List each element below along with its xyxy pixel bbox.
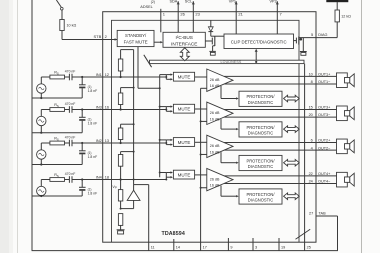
- wire pin 17 reference bus: [200, 88, 202, 250]
- wire C470n to pin 18 row 4: [72, 179, 103, 181]
- ground bus row 2: [32, 132, 82, 134]
- block I2C-BUS INTERFACE: [163, 32, 205, 47]
- resistor bias R3: [118, 128, 122, 140]
- wire tap to bias resistor row 3: [120, 124, 122, 128]
- wire Rs to C470n row 3: [65, 142, 70, 144]
- wire MUTE 4 to amp: [195, 174, 207, 176]
- svg-text:27: 27: [309, 212, 313, 216]
- svg-text:5: 5: [311, 32, 314, 37]
- svg-text:DIAGNOSTIC: DIAGNOSTIC: [248, 131, 274, 136]
- wire ref branch to amp 2: [201, 120, 207, 122]
- svg-text:19: 19: [281, 246, 285, 250]
- signal source V3: [37, 150, 46, 159]
- svg-text:MUTE: MUTE: [178, 140, 191, 145]
- wire source bottom row 1: [40, 93, 42, 98]
- svg-text:I²C-BUS: I²C-BUS: [175, 35, 192, 40]
- wire shunt cap to ground row 3: [81, 154, 83, 164]
- capacitor 1.8 nF row 1: [79, 84, 86, 86]
- capacitor 470 nF row 2: [68, 106, 70, 113]
- resistor bias R4: [118, 155, 122, 167]
- svg-text:DIAGNOSTIC: DIAGNOSTIC: [248, 164, 274, 169]
- node ref bus junction 2: [200, 120, 202, 122]
- wire ref branch to amp 1: [201, 87, 207, 89]
- ground Vref bar: [117, 229, 125, 231]
- node mute control junction: [159, 87, 161, 89]
- svg-text:1: 1: [163, 12, 166, 17]
- ground bus row 1: [32, 97, 82, 99]
- op-amp power amplifier A2: [207, 102, 233, 124]
- svg-text:26: 26: [180, 12, 185, 17]
- svg-text:2: 2: [105, 34, 108, 39]
- wire bias resistor to input row 2: [120, 105, 122, 110]
- wire mute-control branch 2: [160, 106, 167, 108]
- wire speaker - lead 1: [316, 83, 337, 85]
- wire divider to buffer input: [121, 208, 134, 210]
- control bus bar: [150, 60, 305, 63]
- fat double arrow I2C to bus: [180, 48, 189, 61]
- capacitor 1.8 nF row 4: [79, 186, 86, 188]
- switch S1 lever: [56, 0, 61, 7]
- resistor Vref lower: [118, 214, 122, 226]
- wire Q1 source down: [302, 38, 304, 52]
- resistor Rs row 4: [50, 178, 65, 182]
- svg-text:1.8 nF: 1.8 nF: [88, 89, 98, 93]
- node signal junction 4: [165, 179, 167, 181]
- svg-text:VP1: VP1: [229, 0, 236, 4]
- svg-text:PROTECTION/: PROTECTION/: [247, 192, 276, 197]
- svg-text:STB: STB: [94, 34, 102, 39]
- block MUTE 4: [173, 170, 194, 179]
- svg-text:26 dB: 26 dB: [210, 78, 220, 82]
- node input junction row 1: [81, 76, 83, 78]
- node input junction row 4: [81, 178, 83, 180]
- wire MUTE 3 to amp: [195, 141, 207, 143]
- block MUTE 3: [173, 138, 194, 147]
- svg-text:DIAGNOSTIC: DIAGNOSTIC: [248, 100, 274, 105]
- op-amp power amplifier A4: [207, 168, 233, 190]
- wire input split vertical 4: [165, 173, 167, 180]
- node bias-input junction row 2: [120, 108, 122, 110]
- svg-text:470 nF: 470 nF: [65, 135, 76, 139]
- wire speaker - lead 4: [316, 182, 337, 184]
- capacitor 470 nF row 4: [68, 176, 70, 183]
- svg-text:26 dB: 26 dB: [210, 111, 220, 115]
- resistor Vref upper: [118, 190, 122, 201]
- wire source to Rs row 1: [41, 76, 50, 78]
- block MUTE 1: [173, 72, 194, 81]
- wire OUT- channel 2: [224, 116, 316, 118]
- svg-text:IN3: IN3: [96, 106, 102, 110]
- svg-text:26 dB: 26 dB: [210, 144, 220, 148]
- fat double arrow 1: [284, 95, 300, 102]
- wire diode D1 to rail: [210, 20, 212, 27]
- wire input split vertical 2: [165, 107, 167, 112]
- svg-text:DIAG: DIAG: [318, 33, 327, 37]
- wire input split vertical 1: [165, 75, 167, 80]
- svg-text:20: 20: [309, 113, 313, 117]
- switch fast-mute lever: [144, 55, 152, 67]
- wire ref branch to amp 3: [201, 153, 207, 155]
- svg-text:1.8 nF: 1.8 nF: [88, 191, 98, 195]
- arrowhead VP2 up: [276, 1, 279, 4]
- arrowhead SDA up: [177, 1, 180, 4]
- svg-text:PROTECTION/: PROTECTION/: [247, 94, 276, 99]
- node source ground junction row 2: [40, 132, 42, 134]
- wire shunt cap top row 4: [81, 180, 83, 188]
- wire shunt cap top row 2: [81, 110, 83, 118]
- svg-text:16 dB: 16 dB: [210, 150, 220, 154]
- wire 12k to DIAG: [336, 22, 338, 38]
- node bias bus IN4 crossing: [133, 179, 135, 181]
- transistor Q1 gate bar: [295, 38, 297, 44]
- loudspeaker LS4: [337, 172, 348, 187]
- node ref bus junction 3: [200, 153, 202, 155]
- node signal junction 2: [165, 109, 167, 111]
- capacitor 1.8 nF row 3: [79, 150, 86, 152]
- ground bar of Q2: [209, 50, 215, 52]
- wire input split vertical 3: [165, 140, 167, 145]
- svg-text:25: 25: [307, 246, 311, 250]
- node bias-input junction row 1: [120, 76, 122, 78]
- wire mute-control branch 3: [160, 139, 167, 141]
- fat double arrow 2: [284, 126, 300, 133]
- svg-text:12 kΩ: 12 kΩ: [341, 15, 351, 19]
- wire C470n to pin 12 row 1: [72, 76, 103, 78]
- svg-text:22: 22: [309, 172, 313, 176]
- node signal junction 3: [165, 142, 167, 144]
- block STANDBY/FAST MUTE: [117, 30, 154, 46]
- svg-text:9: 9: [230, 246, 232, 250]
- wire source V3 top: [40, 143, 42, 150]
- wire speaker + lead 2: [316, 109, 337, 111]
- wire speaker + lead 1: [316, 75, 337, 77]
- wire divider mid: [120, 201, 122, 209]
- arrowhead SCL up: [192, 1, 195, 4]
- wire bias tap row 4: [121, 151, 134, 153]
- node source ground junction row 1: [40, 97, 42, 99]
- wire buffer input up: [133, 200, 135, 208]
- svg-text:1.8 nF: 1.8 nF: [88, 155, 98, 159]
- loudspeaker LS1: [337, 73, 348, 88]
- node bus-clip junction: [255, 61, 257, 63]
- svg-text:8: 8: [311, 80, 313, 84]
- wire Rs to C470n row 1: [65, 76, 70, 78]
- wire VP2 pin 7: [276, 1, 278, 34]
- arrow STANDBY to I2C: [154, 41, 161, 43]
- signal source V1: [37, 84, 46, 93]
- bus width slash: [296, 229, 311, 239]
- svg-text:1.8 nF: 1.8 nF: [88, 121, 98, 125]
- resistor 10 kOhm: [60, 20, 64, 31]
- svg-text:26 dB: 26 dB: [210, 177, 220, 181]
- wire source to Rs row 3: [41, 142, 50, 144]
- wire bottom pin 14: [173, 239, 175, 251]
- wire IN2 inside IC: [103, 142, 167, 144]
- node DIAG drain junction: [300, 38, 303, 41]
- ground bar of Q1: [300, 51, 307, 53]
- svg-text:SCL: SCL: [185, 0, 192, 4]
- wire bottom pin 9: [227, 238, 229, 251]
- wire Q2 drain to CLIP box: [215, 35, 224, 37]
- svg-text:SDA: SDA: [170, 0, 178, 4]
- svg-text:TAB: TAB: [319, 212, 327, 216]
- wire Q2 source down: [213, 45, 215, 47]
- wire DIAG external: [316, 37, 337, 39]
- op-amp power amplifier A3: [207, 135, 233, 157]
- svg-text:7: 7: [280, 12, 283, 17]
- wire buffer output up: [133, 185, 135, 191]
- wire IN1 inside IC: [103, 76, 167, 78]
- wire tap to bias resistor row 4: [120, 152, 122, 155]
- wire STB horizontal to pin 2: [62, 39, 117, 41]
- svg-text:3: 3: [255, 246, 257, 250]
- svg-text:STANDBY/: STANDBY/: [125, 33, 147, 38]
- wire source to Rs row 4: [41, 179, 50, 181]
- wire bias tap row 1: [121, 49, 134, 51]
- ground bus row 4: [32, 195, 82, 197]
- wire source V1 top: [40, 77, 42, 84]
- wire speaker + lead 3: [316, 142, 337, 144]
- wire MUTE 1 to amp: [195, 76, 207, 78]
- arrow into MUTE 3 lower: [166, 144, 170, 146]
- svg-text:FAST MUTE: FAST MUTE: [124, 40, 148, 45]
- svg-text:VP2: VP2: [270, 0, 277, 4]
- svg-text:12: 12: [105, 73, 109, 77]
- wire OUT- channel 1: [224, 83, 316, 85]
- svg-text:16: 16: [105, 106, 109, 110]
- wire amp 2 to protection: [220, 119, 222, 129]
- arrow into MUTE 2 upper: [166, 106, 170, 108]
- wire speaker + lead 4: [316, 175, 337, 177]
- fat double arrow 3: [284, 159, 300, 166]
- wire tap to bias resistor row 1: [120, 50, 122, 59]
- svg-text:13: 13: [105, 139, 109, 143]
- wire R10k to STB corner: [61, 31, 63, 40]
- wire OUT+ channel 3: [224, 142, 316, 144]
- node mute-control junction 4: [159, 172, 161, 174]
- wire source to Rs row 2: [41, 109, 50, 111]
- op-amp Vref buffer: [127, 190, 140, 200]
- node bias bus tap 2: [133, 87, 135, 89]
- svg-text:15: 15: [309, 106, 313, 110]
- wire bias resistor to input row 4: [120, 166, 122, 179]
- wire OUT- channel 3: [224, 149, 316, 151]
- arrow into MUTE 4 lower: [166, 176, 170, 178]
- node mute-control junction 2: [159, 106, 161, 108]
- loudspeaker LS3: [337, 139, 348, 154]
- wire pin 11 vertical: [148, 185, 150, 251]
- wire amp 4 to protection: [220, 185, 222, 196]
- node bias bus tap 4: [133, 151, 135, 153]
- wire Rs to C470n row 4: [65, 179, 70, 181]
- wire STANDBY bottom down: [137, 47, 139, 89]
- resistor Rs row 2: [50, 108, 65, 112]
- wire amp 1 to protection: [220, 86, 222, 99]
- block CLIP DETECT/DIAGNOSTIC: [224, 34, 294, 49]
- wire standby to mute-control bus: [138, 87, 160, 89]
- IC U1 TDA8594 outline: [103, 12, 316, 243]
- wire mute-control branch 1: [160, 74, 167, 76]
- svg-text:470 nF: 470 nF: [65, 69, 76, 73]
- arrow into MUTE 1 upper: [166, 74, 170, 76]
- arrow into MUTE 2 lower: [166, 110, 170, 112]
- node bias bus tap 3: [133, 123, 135, 125]
- svg-text:INTERFACE: INTERFACE: [171, 41, 197, 46]
- svg-text:OUT4+: OUT4+: [318, 172, 331, 176]
- resistor Rs row 1: [50, 75, 65, 79]
- svg-text:CLIP DETECT/DIAGNOSTIC: CLIP DETECT/DIAGNOSTIC: [231, 40, 287, 45]
- wire bus up into CLIP box with arrow: [255, 51, 257, 60]
- wire TAB pin 27: [316, 215, 338, 217]
- svg-text:ADSEL: ADSEL: [140, 5, 152, 9]
- svg-text:MUTE: MUTE: [178, 107, 191, 112]
- wire OUT- channel 4: [224, 182, 316, 184]
- svg-text:IN4: IN4: [96, 176, 102, 180]
- wire source V2 top: [40, 110, 42, 117]
- node divider mid junction: [120, 208, 122, 210]
- wire VP1 pin 21: [235, 1, 237, 34]
- signal source V2: [37, 116, 46, 125]
- node ref bus junction 4: [200, 187, 202, 189]
- node source ground junction row 3: [40, 163, 42, 165]
- svg-text:TDA8594: TDA8594: [162, 231, 185, 237]
- ground Vref box: [118, 231, 124, 234]
- wire speaker - lead 3: [316, 149, 337, 151]
- signal source V4: [37, 186, 46, 195]
- svg-text:DIAGNOSTIC: DIAGNOSTIC: [248, 198, 274, 203]
- node mute-control junction 3: [159, 139, 161, 141]
- wire switch to R 10k: [61, 10, 63, 20]
- ground box of Q2: [210, 52, 215, 55]
- node signal junction 1: [165, 76, 167, 78]
- svg-text:14: 14: [176, 246, 180, 250]
- resistor 12 kOhm: [335, 10, 339, 22]
- svg-text:17: 17: [203, 246, 207, 250]
- node input junction row 2: [81, 108, 83, 110]
- diode D1: [208, 27, 213, 32]
- block PROTECTION/DIAGNOSTIC 2: [239, 122, 282, 137]
- fat double arrow 4: [284, 193, 300, 200]
- svg-text:18: 18: [105, 176, 109, 180]
- op-amp power amplifier A1: [207, 69, 233, 91]
- ground box of Q1: [301, 53, 306, 56]
- wire lower resistor to ground: [120, 225, 122, 229]
- svg-text:IN1: IN1: [96, 73, 102, 77]
- block PROTECTION/DIAGNOSTIC 1: [239, 91, 282, 106]
- wire diagnostic bus pin 25: [304, 64, 306, 251]
- svg-text:21: 21: [238, 12, 243, 17]
- resistor Rs row 3: [50, 141, 65, 145]
- wire mute-control branch 4: [160, 172, 167, 174]
- svg-text:23: 23: [195, 12, 200, 17]
- wire shunt cap to ground row 2: [81, 121, 83, 133]
- wire MUTE 2 to amp: [195, 108, 207, 110]
- wire source bottom row 4: [40, 195, 42, 197]
- wire bottom pin 19: [278, 238, 280, 251]
- wire C470n to pin 13 row 3: [72, 142, 103, 144]
- svg-text:470 nF: 470 nF: [65, 102, 76, 106]
- capacitor 470 nF row 1: [68, 74, 70, 81]
- resistor bias R2: [118, 93, 122, 105]
- node input junction row 3: [81, 142, 83, 144]
- svg-text:470 nF: 470 nF: [65, 172, 76, 176]
- wire bias resistor to input row 3: [120, 140, 122, 144]
- block PROTECTION/DIAGNOSTIC 4: [239, 189, 282, 204]
- wire amp 3 to protection: [220, 152, 222, 163]
- wire CLIP box to Q1 gate: [294, 40, 297, 42]
- wire bias resistor to input row 1: [120, 71, 122, 77]
- wire bias tap row 2: [121, 87, 134, 89]
- wire D1 to Q2 drain: [210, 32, 212, 37]
- svg-text:MUTE: MUTE: [178, 173, 191, 178]
- svg-text:LOUDNESS: LOUDNESS: [221, 60, 242, 64]
- wire IN4 to Vref divider: [120, 180, 122, 190]
- svg-text:4: 4: [311, 146, 313, 150]
- wire OUT+ channel 2: [224, 109, 316, 111]
- wire Vref bias bus: [133, 50, 135, 185]
- wire shunt cap top row 3: [81, 143, 83, 151]
- svg-text:IN2: IN2: [96, 139, 102, 143]
- transistor Q2 gate wire: [205, 40, 212, 42]
- wire mute control vertical bus: [159, 75, 161, 178]
- capacitor 470 nF row 3: [68, 140, 70, 147]
- svg-text:OUT2+: OUT2+: [318, 139, 331, 143]
- wire ADSEL pin 1: [160, 9, 162, 33]
- svg-text:VP: VP: [112, 185, 117, 190]
- capacitor 1.8 nF row 2: [79, 116, 86, 118]
- block PROTECTION/DIAGNOSTIC 3: [239, 155, 282, 170]
- wire source bottom row 3: [40, 159, 42, 164]
- wire speaker - lead 2: [316, 116, 337, 118]
- resistor bias R1: [118, 59, 122, 71]
- arrow into STANDBY box: [115, 38, 118, 41]
- svg-text:PROTECTION/: PROTECTION/: [247, 158, 276, 163]
- svg-text:16 dB: 16 dB: [210, 117, 220, 121]
- supply rail bar for DIAG pull-up: [326, 0, 348, 2]
- transistor Q2 gate bar: [211, 38, 213, 45]
- svg-text:10: 10: [309, 73, 313, 77]
- wire SCL pin 23: [192, 1, 194, 32]
- wire bottom pin 3: [252, 238, 254, 251]
- wire OUT+ channel 4: [224, 175, 316, 177]
- svg-text:16 dB: 16 dB: [210, 184, 220, 188]
- svg-text:MUTE: MUTE: [178, 75, 191, 80]
- wire SDA pin 26: [177, 1, 179, 32]
- wire shunt cap to ground row 4: [81, 191, 83, 196]
- wire shunt cap top row 1: [81, 77, 83, 85]
- wire IN4 inside IC: [103, 179, 167, 181]
- wire supply to 12k: [336, 2, 338, 10]
- loudspeaker LS2: [337, 106, 348, 121]
- svg-text:PROTECTION/: PROTECTION/: [247, 125, 276, 130]
- arrowhead VP1 up: [235, 1, 238, 4]
- wire OUT+ channel 1: [224, 75, 316, 77]
- ground bus row 3: [32, 164, 82, 166]
- wire source V4 top: [40, 180, 42, 187]
- switch S1 contact circle: [61, 7, 64, 10]
- svg-text:10 kΩ: 10 kΩ: [67, 24, 77, 28]
- wire shunt cap to ground row 1: [81, 88, 83, 98]
- svg-text:6: 6: [311, 139, 313, 143]
- wire IN3 inside IC: [103, 109, 167, 111]
- node source ground junction row 4: [40, 195, 42, 197]
- svg-text:(2): (2): [151, 0, 155, 4]
- arrow into MUTE 3 upper: [166, 139, 170, 141]
- node bias-input junction row 3: [120, 142, 122, 144]
- svg-text:11: 11: [151, 246, 155, 250]
- transistor Q2 channel bar: [214, 36, 216, 46]
- arrow into MUTE 4 upper: [166, 172, 170, 174]
